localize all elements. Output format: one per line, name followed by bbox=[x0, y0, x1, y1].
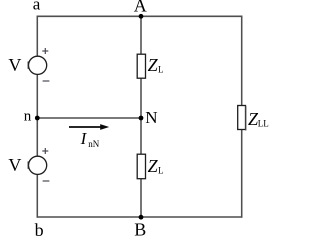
V1 minus sign bbox=[43, 80, 50, 82]
svg-text:n: n bbox=[24, 108, 32, 124]
svg-text:a: a bbox=[33, 0, 41, 14]
impedance ZLL (line-to-line load) bbox=[238, 106, 246, 130]
wire left n to source V2 bbox=[36, 118, 38, 156]
wire neutral n to N bbox=[37, 117, 141, 119]
V1 plus sign bbox=[42, 48, 48, 54]
impedance ZL1 (top load) bbox=[137, 54, 145, 78]
node N bbox=[139, 116, 144, 121]
V2 left edge mark bbox=[27, 162, 29, 169]
svg-text:N: N bbox=[145, 108, 157, 127]
wire right upper (corner to ZLL) bbox=[241, 16, 243, 106]
wire left a to source V1 bbox=[36, 16, 38, 57]
node B bbox=[139, 215, 144, 220]
current arrow InN bbox=[69, 126, 102, 128]
ZLL right shade bbox=[245, 106, 247, 131]
V2 plus sign bbox=[42, 148, 48, 154]
wire middle ZL1 to N bbox=[140, 78, 142, 118]
impedance ZL2 (bottom load) bbox=[137, 154, 145, 179]
node n bbox=[35, 116, 40, 121]
svg-text:nN: nN bbox=[88, 139, 100, 149]
wire middle ZL2 to B bbox=[140, 179, 142, 218]
wire bottom B to b bbox=[37, 216, 141, 218]
wire top A to right corner bbox=[141, 15, 242, 17]
svg-text:b: b bbox=[35, 220, 44, 239]
wire middle N to ZL2 bbox=[140, 118, 142, 155]
svg-text:LL: LL bbox=[258, 119, 269, 129]
node A bbox=[139, 14, 144, 19]
wire left source V2 to b bbox=[36, 174, 38, 217]
wire right lower (ZLL to bottom corner) bbox=[241, 129, 243, 217]
voltage source V2 bbox=[28, 156, 46, 174]
wire top a to A bbox=[37, 15, 141, 17]
svg-text:Z: Z bbox=[148, 55, 159, 75]
svg-text:L: L bbox=[158, 64, 164, 74]
wire bottom right corner to B bbox=[141, 216, 242, 218]
wire left source V1 to n bbox=[36, 74, 38, 118]
svg-text:B: B bbox=[134, 220, 146, 239]
svg-text:V: V bbox=[8, 155, 21, 175]
svg-text:L: L bbox=[158, 165, 164, 175]
voltage source V1 bbox=[28, 56, 46, 74]
svg-text:V: V bbox=[8, 55, 21, 75]
V2 minus sign bbox=[43, 180, 50, 182]
svg-text:A: A bbox=[134, 0, 147, 16]
svg-text:Z: Z bbox=[148, 156, 159, 176]
wire middle A to ZL1 bbox=[140, 16, 142, 54]
V1 left edge mark bbox=[27, 62, 29, 69]
